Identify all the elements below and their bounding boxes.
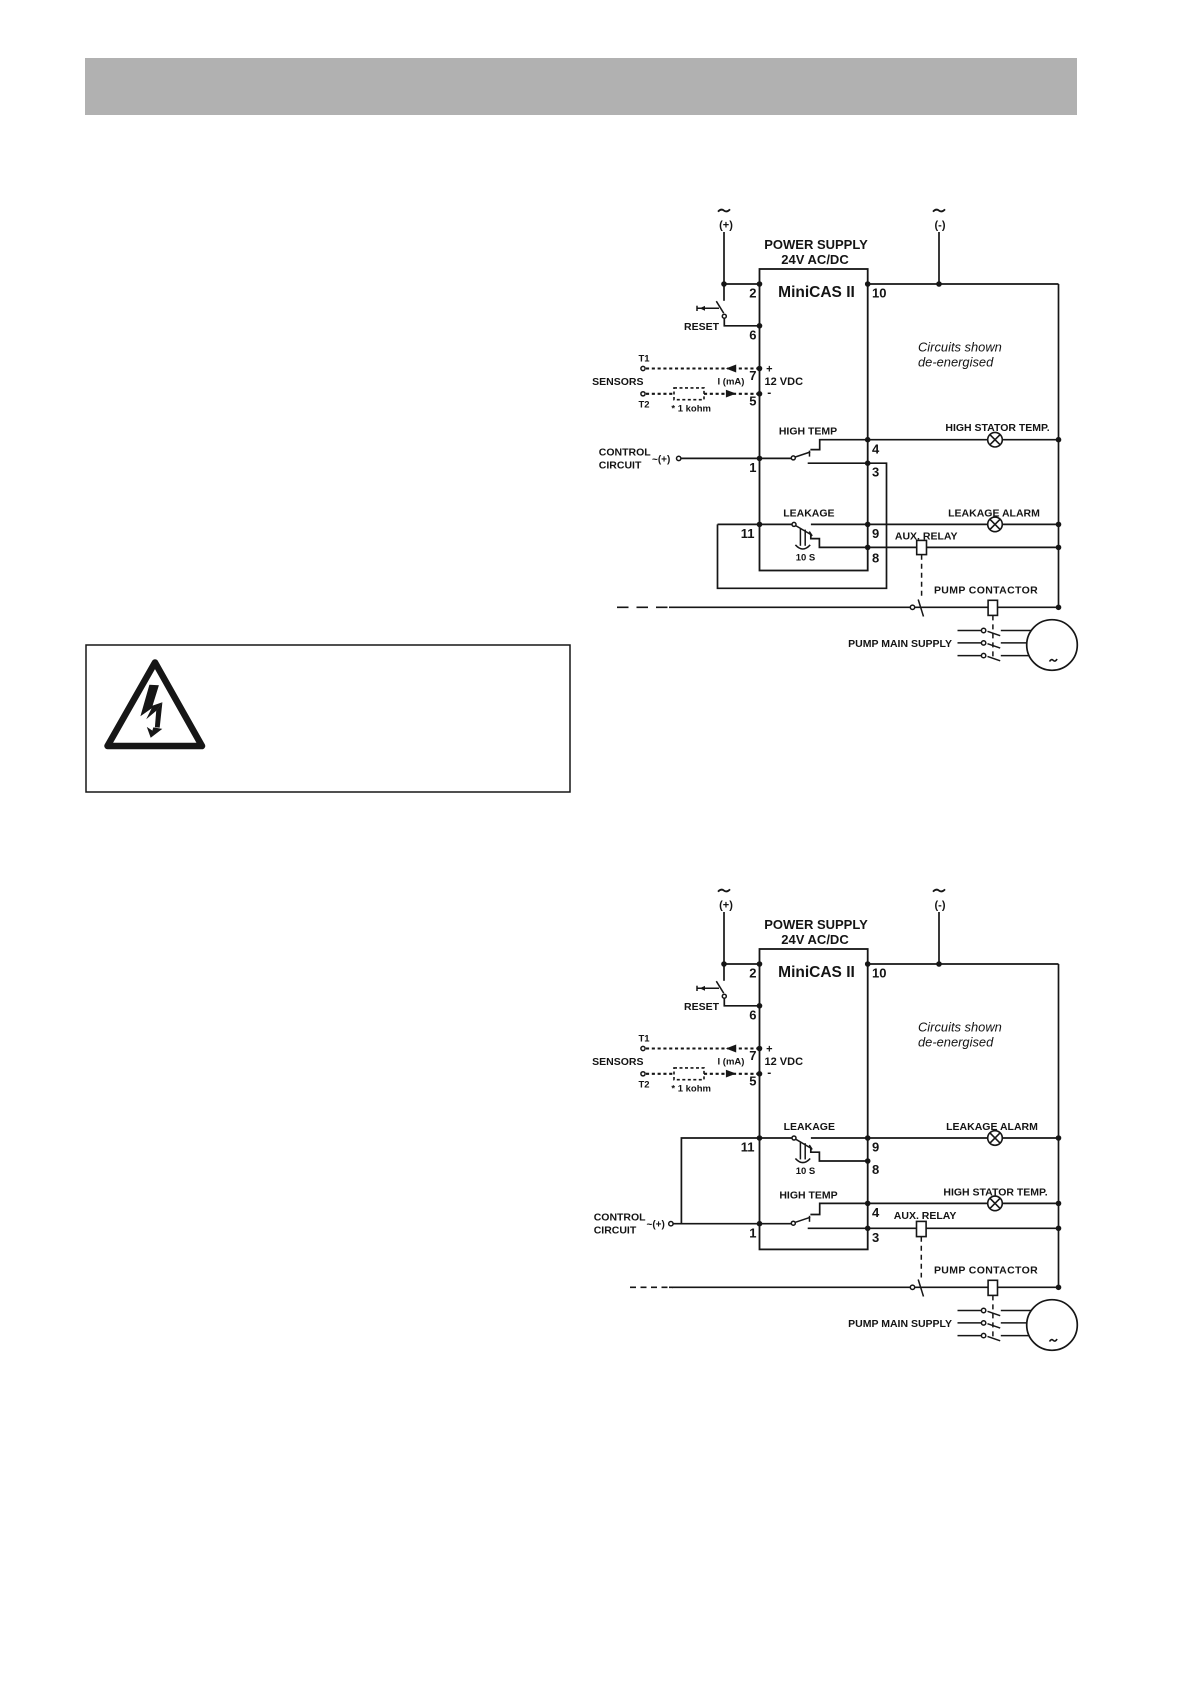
svg-text:3: 3	[872, 1230, 879, 1245]
D1 wire pin 9 to rail	[811, 523, 1059, 525]
lightning bolt	[140, 685, 162, 720]
svg-text:24V AC/DC: 24V AC/DC	[781, 252, 849, 267]
svg-text:T2: T2	[639, 400, 650, 411]
svg-text:(+): (+)	[719, 900, 733, 912]
svg-text:8: 8	[872, 551, 879, 566]
D2 wire pin 2	[724, 963, 760, 965]
svg-text:MiniCAS II: MiniCAS II	[778, 284, 855, 301]
D1 pump main supply 3-phase lines with contacts	[958, 630, 982, 632]
D2 pump contactor switch contact	[910, 1285, 914, 1289]
svg-text:PUMP MAIN SUPPLY: PUMP MAIN SUPPLY	[848, 638, 952, 650]
D1 motor M1	[1027, 620, 1078, 671]
svg-text:CIRCUIT: CIRCUIT	[599, 460, 642, 472]
D2 pump contactor coil	[988, 1280, 997, 1295]
D1 wire control to high-temp switch pin 1	[681, 457, 792, 459]
svg-text:PUMP MAIN SUPPLY: PUMP MAIN SUPPLY	[848, 1318, 952, 1330]
svg-text:(-): (-)	[935, 900, 946, 912]
svg-text:4: 4	[872, 441, 880, 456]
svg-text:Circuits shown: Circuits shown	[918, 340, 1002, 355]
D1 leakage switch with 10s delay	[792, 522, 796, 526]
svg-text:HIGH TEMP: HIGH TEMP	[779, 1190, 837, 1202]
D1 node (-) supply terminal	[933, 209, 945, 211]
D1 aux relay coil K1	[917, 540, 927, 554]
svg-text:SENSORS: SENSORS	[592, 1056, 643, 1068]
D1 wire pin 8 (step) to rail	[811, 535, 1059, 548]
D2 high stator temp lamp H1	[988, 1196, 1003, 1211]
svg-text:PUMP CONTACTOR: PUMP CONTACTOR	[934, 1265, 1038, 1277]
svg-text:AUX. RELAY: AUX. RELAY	[895, 530, 958, 542]
D1 aux relay dashed link	[921, 555, 923, 598]
D2 wire pin 10 to rail	[868, 963, 1059, 965]
D1 sensor terminal T1	[641, 366, 645, 370]
D2 wire pin 9 to rail	[811, 1137, 1059, 1139]
svg-text:9: 9	[872, 526, 879, 541]
svg-text:de-energised: de-energised	[918, 1035, 994, 1050]
D2 wire pin 8 (step) to box edge	[811, 1148, 868, 1161]
D1 arrow on pin 5 wire	[726, 390, 736, 398]
D1 high stator temp lamp H1	[988, 432, 1003, 447]
D1 pump contactor coil	[988, 600, 997, 615]
svg-text:7: 7	[749, 1048, 756, 1063]
svg-text:+: +	[766, 364, 772, 376]
D1 wire contactor to rail	[998, 606, 1059, 608]
D2 wire pin 6	[724, 998, 759, 1006]
D1 dashed wire T1 to pin 7	[646, 367, 760, 369]
svg-text:CONTROL: CONTROL	[599, 447, 651, 459]
svg-text:8: 8	[872, 1162, 879, 1177]
D1 resistor R1 1 kohm (dashed)	[674, 388, 704, 400]
svg-text:LEAKAGE: LEAKAGE	[783, 507, 834, 519]
D2 motor M1	[1027, 1300, 1078, 1351]
D2 resistor R1 1 kohm (dashed)	[674, 1068, 704, 1080]
svg-text:6: 6	[749, 1008, 756, 1023]
svg-text:11: 11	[741, 1140, 755, 1155]
D2 dashed wire T2 to pin 5	[646, 1073, 674, 1075]
D1 leakage alarm lamp H2	[988, 517, 1003, 532]
D2 node (-) supply terminal	[933, 889, 945, 891]
svg-text:HIGH TEMP: HIGH TEMP	[779, 425, 837, 437]
D2 node (+) supply terminal	[718, 889, 730, 891]
D2 pump main supply 3-phase lines with contacts	[958, 1310, 982, 1312]
D1 pump contactor switch contact	[910, 605, 914, 609]
D1 high temp switch	[791, 456, 795, 460]
svg-text:10: 10	[872, 966, 886, 981]
D2 sensor terminal T1	[641, 1046, 645, 1050]
svg-text:* 1 kohm: * 1 kohm	[671, 403, 711, 414]
svg-text:1: 1	[749, 460, 756, 475]
D1 node (+) supply terminal	[718, 209, 730, 211]
svg-text:(-): (-)	[935, 220, 946, 232]
D1 control circuit terminal	[677, 456, 681, 460]
D2 aux relay dashed link	[920, 1237, 922, 1278]
D1 wire pin 2	[724, 283, 760, 285]
svg-text:POWER SUPPLY: POWER SUPPLY	[764, 917, 868, 932]
D1 wire pin 10 to rail	[868, 283, 1059, 285]
D2 control circuit terminal	[669, 1222, 673, 1226]
D2 wire (-) drop	[938, 912, 940, 964]
svg-text:3: 3	[872, 464, 879, 479]
D2 dashed wire T1 to pin 7	[646, 1047, 760, 1049]
svg-text:PUMP CONTACTOR: PUMP CONTACTOR	[934, 585, 1038, 597]
D1 right rail	[1058, 284, 1060, 607]
svg-text:I (mA): I (mA)	[718, 377, 745, 388]
svg-text:Circuits shown: Circuits shown	[918, 1020, 1002, 1035]
D2 wire pin 3 to rail	[808, 1227, 1059, 1229]
svg-text:T1: T1	[639, 1034, 651, 1045]
D1 wire pin 3 to outer loop	[718, 463, 887, 588]
svg-text:-: -	[767, 1066, 771, 1080]
svg-text:* 1 kohm: * 1 kohm	[671, 1083, 711, 1094]
svg-text:T2: T2	[639, 1080, 650, 1091]
D2 leakage switch with 10s delay	[792, 1136, 796, 1140]
D1 contactor dashed link	[992, 615, 994, 659]
D2 junction (-)/pin10 wire	[936, 961, 942, 967]
D2 arrow on pin 5 wire	[726, 1070, 736, 1078]
svg-text:-: -	[767, 386, 771, 400]
D1 wire pin 6	[724, 318, 759, 326]
D1 wire (-) drop	[938, 232, 940, 284]
D2 high temp switch	[791, 1221, 795, 1225]
D1 sensor terminal T2	[641, 392, 645, 396]
svg-text:~(+): ~(+)	[647, 1220, 665, 1231]
svg-text:T1: T1	[639, 354, 651, 365]
svg-text:SENSORS: SENSORS	[592, 376, 643, 388]
svg-text:AUX. RELAY: AUX. RELAY	[894, 1210, 957, 1222]
svg-text:CIRCUIT: CIRCUIT	[594, 1224, 637, 1236]
header bar	[85, 58, 1077, 115]
D2 aux relay coil K1	[917, 1221, 927, 1236]
svg-text:(+): (+)	[719, 220, 733, 232]
D2 contactor dashed link	[992, 1295, 994, 1339]
svg-text:10 S: 10 S	[796, 553, 816, 564]
D2 wire (+) drop	[723, 912, 725, 981]
D1 junction (+)/pin2	[721, 281, 727, 287]
svg-text:POWER SUPPLY: POWER SUPPLY	[764, 237, 868, 252]
D2 wire pin 4 (step) to rail	[810, 1203, 1058, 1214]
D1 junction (-)/pin10 wire	[936, 281, 942, 287]
svg-text:RESET: RESET	[684, 321, 720, 333]
svg-text:CONTROL: CONTROL	[594, 1212, 646, 1224]
svg-text:HIGH STATOR TEMP.: HIGH STATOR TEMP.	[945, 422, 1049, 434]
D2 wire control to high-temp switch pin 1	[673, 1223, 792, 1225]
D1 wire (+) drop	[723, 232, 725, 301]
D2 wire contactor to rail	[998, 1286, 1059, 1288]
D1 pump contactor line	[669, 606, 910, 608]
svg-text:9: 9	[872, 1139, 879, 1154]
svg-text:5: 5	[749, 394, 756, 409]
svg-text:11: 11	[741, 526, 755, 541]
D1 MiniCAS II box U1	[760, 269, 868, 571]
D1 pump contactor line (dashed tail)	[617, 606, 670, 608]
D2 right rail	[1058, 964, 1060, 1287]
warning box frame	[86, 645, 570, 792]
svg-text:1: 1	[749, 1225, 756, 1240]
svg-text:2: 2	[749, 966, 756, 981]
warning triangle	[108, 663, 203, 747]
svg-text:6: 6	[749, 328, 756, 343]
D2 wire pin 11 from control vertical	[681, 1138, 791, 1224]
svg-text:10: 10	[872, 286, 886, 301]
svg-text:MiniCAS II: MiniCAS II	[778, 964, 855, 981]
svg-text:7: 7	[749, 368, 756, 383]
svg-text:I (mA): I (mA)	[718, 1057, 745, 1068]
D2 leakage alarm lamp H2	[988, 1131, 1003, 1146]
svg-text:24V AC/DC: 24V AC/DC	[781, 932, 849, 947]
svg-text:4: 4	[872, 1205, 880, 1220]
D2 pump contactor line	[669, 1286, 910, 1288]
svg-text:+: +	[766, 1044, 772, 1056]
D1 dashed wire T2 to pin 5	[646, 393, 674, 395]
svg-text:LEAKAGE: LEAKAGE	[784, 1121, 835, 1133]
D1 arrow on pin 7 wire	[726, 365, 736, 373]
D1 reset push-button S1	[696, 306, 698, 311]
svg-text:2: 2	[749, 286, 756, 301]
D2 pump contactor line (dashed tail)	[630, 1286, 673, 1288]
D2 MiniCAS II box U1	[760, 949, 868, 1249]
svg-text:~(+): ~(+)	[652, 454, 670, 465]
D1 wire pin 4 (step) to rail	[810, 440, 1058, 450]
D2 arrow on pin 7 wire	[726, 1045, 736, 1053]
D2 junction (+)/pin2	[721, 961, 727, 967]
svg-text:LEAKAGE ALARM: LEAKAGE ALARM	[946, 1121, 1038, 1133]
svg-text:5: 5	[749, 1074, 756, 1089]
svg-text:HIGH STATOR TEMP.: HIGH STATOR TEMP.	[943, 1186, 1047, 1198]
svg-text:de-energised: de-energised	[918, 355, 994, 370]
D2 sensor terminal T2	[641, 1072, 645, 1076]
D1 wire pin 11	[718, 523, 792, 525]
D2 reset push-button S1	[696, 986, 698, 991]
svg-text:RESET: RESET	[684, 1001, 720, 1013]
svg-text:LEAKAGE ALARM: LEAKAGE ALARM	[948, 507, 1040, 519]
svg-text:10 S: 10 S	[796, 1166, 816, 1177]
